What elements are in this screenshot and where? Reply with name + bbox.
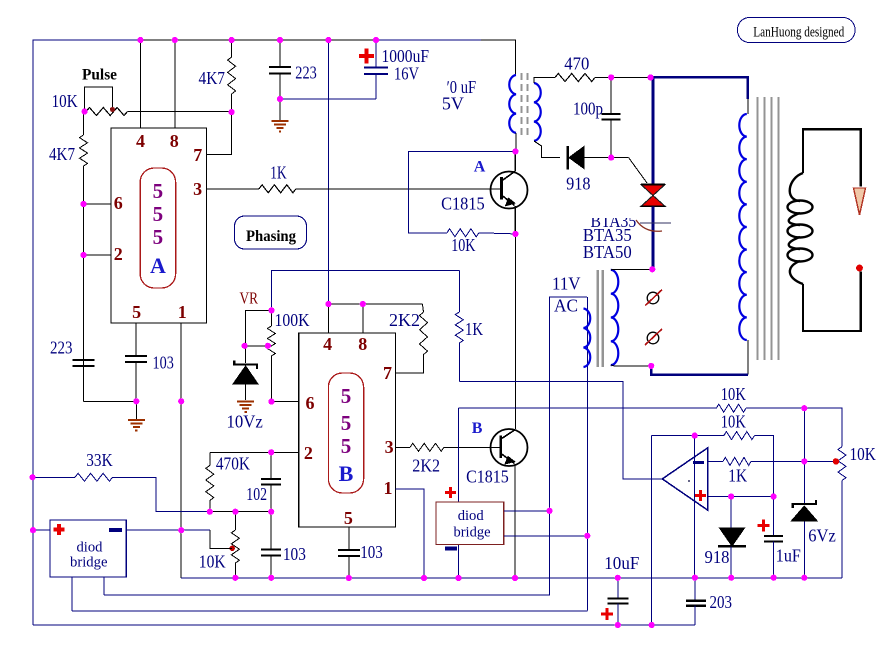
main transformer secondary winding [747,99,749,114]
11V transformer primary winding [584,309,591,368]
op IC U1 555 A box [111,128,207,323]
wire VCC to 1K vertical [272,271,460,311]
pulse transformer T1 primary [509,75,516,133]
pulse transformer T1 secondary [534,83,541,141]
wire T1 primary to A collector [515,133,517,151]
svg-text:diod: diod [77,540,103,556]
box around Q1 [408,151,515,232]
plus 10uF [601,608,613,620]
resistor 470K [209,452,211,465]
junction node (267.9,345.8) [265,343,271,349]
svg-text:103: 103 [360,542,383,562]
wire pin2 B + 470K top [210,451,299,453]
capacitor 1uF [773,497,775,537]
wire rail 2 [104,594,550,596]
wire zener column [803,408,805,503]
junction node (328.4,40) [325,37,331,43]
svg-text:103: 103 [283,544,306,564]
svg-text:10K: 10K [199,551,226,571]
trimmer 10K [234,512,236,530]
capacitor 103 col [270,512,272,550]
capacitor 223 left [73,360,95,366]
svg-text:10Vz: 10Vz [227,412,263,432]
plus 1uF [758,520,770,532]
junction node (271.2,452.3) [268,449,274,455]
wire A emitter down to B collector [514,234,516,429]
resistor 33K [33,476,75,478]
ground A [128,420,145,431]
bridge2 AC stubs [504,510,550,512]
opamp plus [695,490,706,501]
capacitor 10uF [617,578,619,599]
plus bridge1 [54,524,65,535]
junction node (362.8,304) [360,301,366,307]
resistor 4K7 left [83,112,85,136]
svg-text:C1815: C1815 [466,467,509,487]
junction node (515.4,233.9) [512,231,518,237]
junction node (424,578) [421,575,427,581]
junction node (33,530.2) [30,527,36,533]
svg-text:918: 918 [705,547,730,567]
svg-text:1: 1 [178,302,187,322]
resistor 4K7 right (pin7 pullup) [231,40,233,57]
wire pin4 A supply [139,40,141,128]
svg-text:203: 203 [710,592,733,612]
junction node (280,99) [277,96,283,102]
svg-text:diod: diod [458,508,484,524]
load box [803,129,861,186]
wire 11V sec bottom [611,365,651,366]
junction node (209.8,511.7) [207,509,213,515]
capacitor 203 [694,578,696,601]
wire ground stem [279,99,281,120]
svg-text:C1815: C1815 [441,194,485,214]
wire feedback down [651,436,653,625]
wire pin8 A supply [174,40,176,128]
red terminal dot [856,265,863,272]
junction node (611.2,77.4) [608,74,614,80]
wire pin5 B [348,527,350,550]
box Phasing [235,216,307,249]
wire T1 sec bottom [534,141,560,158]
svg-text:5: 5 [341,434,352,458]
wire bridge1 minus [126,529,210,531]
wire supply to pins 4,8 B [328,303,422,305]
resistor 1K vertical [458,271,460,312]
svg-text:AC: AC [554,296,578,316]
junction node (84.6,111.5) [82,108,88,114]
capacitor 103 B [338,550,360,556]
terminal circle 1 [647,292,659,304]
junction node (651.2,365.9) [648,363,654,369]
wire bridge2 + column [549,511,551,596]
capacitor 102 [270,452,272,479]
diod bridge 2 box [436,502,504,544]
capacitor 223 top [279,40,281,67]
opamp speck [688,480,690,482]
wire pin6 stub [84,203,112,205]
spark arrow [854,188,866,215]
junction node (32.5,477.25) [29,474,35,480]
inductor load coil [790,173,803,201]
junction node (651.7,625) [649,622,655,628]
ground zener [237,402,254,413]
junction node (181.2,401.3) [178,398,184,404]
svg-text:103: 103 [153,353,174,373]
terminal circle 2 [647,332,659,344]
svg-text:bridge: bridge [70,555,108,571]
svg-text:5V: 5V [442,94,464,114]
junction node (271.5,310.3) [268,307,274,313]
junction node (280,40) [277,37,283,43]
wire 555B supply vertical [327,40,329,304]
wire inverting node vertical [694,436,696,578]
svg-text:B: B [339,461,354,486]
svg-text:102: 102 [246,484,267,504]
transistor Q1 C1815 A [491,172,528,209]
svg-text:100K: 100K [275,310,310,330]
wire 470K bottom node [210,511,271,513]
svg-text:BTA50: BTA50 [583,242,632,262]
wire pot to 4K7 [128,111,232,113]
wire pin1 A down [180,323,182,578]
wiper tap [246,310,272,363]
triac gate arc mark [640,222,671,224]
svg-text:4K7: 4K7 [49,144,75,164]
junction node (348.8,578) [346,575,352,581]
wire bridge2 - column [586,536,588,611]
main transformer core [756,97,758,360]
svg-text:4K7: 4K7 [199,68,226,88]
junction node (271.2,577.8) [268,575,274,581]
svg-text:3: 3 [385,437,394,457]
capacitor 100p [610,77,612,114]
svg-text:8: 8 [358,334,367,354]
svg-text:4: 4 [136,131,145,151]
resistor 10K base A [447,229,479,237]
junction node (694.9,577.7) [692,575,698,581]
junction node (271.4,401.6) [268,399,274,405]
wire T1 sec top [534,78,548,84]
capacitor 103 A [125,356,147,362]
minus bridge2 [445,547,457,551]
11V transformer secondary winding [611,270,619,365]
ground top [272,121,289,132]
junction node (617.8,577.8) [615,575,621,581]
svg-text:10uF: 10uF [604,553,639,573]
svg-text:4: 4 [323,334,332,354]
svg-text:1K: 1K [465,319,483,339]
wire 11V sec top [611,268,653,271]
opamp minus [693,461,704,464]
svg-text:1: 1 [384,478,393,498]
junction node (235.4,577.8) [232,575,238,581]
svg-text:Pulse: Pulse [82,67,117,84]
junction node (587.3,535.8) [584,533,590,539]
svg-text:5: 5 [341,411,352,435]
pulse transformer T1 core [521,73,523,137]
capacitor 1000uF 16V [375,40,377,67]
wire 1000uF to ground node [280,98,376,100]
svg-text:5: 5 [132,302,141,322]
junction node (617.8,625) [615,622,621,628]
junction node (804.3,577.7) [801,575,807,581]
wire plus supply row [459,407,717,409]
resistor 1K pin3 [207,188,260,190]
svg-text:A: A [150,253,166,278]
wire rail 3 [72,610,588,612]
outer border left+top [140,39,376,41]
junction node (804.3,408.2) [801,405,807,411]
resistor 470 [548,77,555,79]
svg-text:470: 470 [564,54,589,74]
resistor 2K2 pin3 [396,446,411,448]
zener diode 6Vz [793,500,816,508]
wire rail ground [181,577,842,579]
triac BTA35/BTA50 [641,185,665,196]
junction node (515.4,151.4) [512,148,518,154]
junction node (731.2,577.7) [728,575,734,581]
svg-text:bridge: bridge [454,525,491,541]
svg-text:7: 7 [193,145,202,165]
wire pin5 A [135,323,137,356]
wire bridge1 plus [33,529,50,531]
svg-text:223: 223 [295,63,317,83]
junction node (231.6,112.1) [229,109,235,115]
junction node (174.8,40) [172,37,178,43]
11V AC label box + wire [550,297,587,511]
op-amp U3 [662,448,708,511]
svg-text:470K: 470K [216,454,250,474]
diod bridge 1 box [50,520,126,577]
junction node (244.6,345.8) [242,343,248,349]
junction node (271.2,511.7) [268,509,274,515]
svg-text:16V: 16V [394,64,419,84]
junction node (328.4,304) [325,301,331,307]
wire pin2 stub [84,254,112,256]
svg-text:1uF: 1uF [776,546,801,566]
svg-text:Phasing: Phasing [246,228,296,245]
junction node (181.2,530.2) [178,527,184,533]
svg-text:5: 5 [153,179,164,203]
svg-text:10K: 10K [721,412,746,432]
svg-text:10K: 10K [850,444,876,464]
wire rail 4 [33,624,695,626]
resistor 10K feedback [652,435,724,437]
trimmer wiper wire [210,530,232,548]
op IC U2 555 B box [299,333,396,527]
transistor Q2 C1815 B [491,429,528,466]
svg-text:2: 2 [304,443,313,463]
wire opamp output loop [459,381,662,479]
junction node (231.6,40) [229,37,235,43]
junction node (140.4,40) [137,37,143,43]
svg-text:6: 6 [114,193,123,213]
junction node (83.5,204) [80,201,86,207]
svg-text:11V: 11V [552,274,581,294]
11V transformer core [597,270,599,367]
svg-text:100p: 100p [573,99,603,119]
svg-text:1K: 1K [728,465,747,485]
junction node (549.5,510.8) [546,508,552,514]
box LanHuong designed [738,18,856,43]
svg-text:6: 6 [306,393,315,413]
svg-text:7: 7 [383,363,392,383]
plus bridge2 [445,487,456,498]
555A inner rounded rect [140,168,175,288]
pot wiper arm [85,87,113,112]
junction node (773.6,496.5) [771,493,777,499]
svg-text:10K: 10K [52,91,78,111]
junction node (458.5,578) [455,575,461,581]
svg-text:3: 3 [193,179,202,199]
wiper contact dot [110,107,115,112]
wire output net corner [458,408,460,502]
svg-text:B: B [472,420,483,437]
svg-text:2K2: 2K2 [389,310,420,330]
zener diode 10Vz [234,361,257,370]
potentiometer 100K [270,310,272,326]
thick wire transformer bottom [651,366,748,375]
svg-text:33K: 33K [86,450,112,470]
junction node (773.6,577.7) [771,575,777,581]
wire to triac gate [611,157,628,159]
wire pin7 [207,112,232,155]
wire top rail navy right portion [376,39,481,41]
svg-text:10K: 10K [451,235,475,255]
junction node (136.3,401.3) [133,398,139,404]
wire pin1 B [396,489,425,578]
junction node (650.6,77.4) [648,74,654,80]
svg-text:2K2: 2K2 [412,456,440,476]
svg-text:5: 5 [153,225,164,249]
potentiometer 10K Pulse [86,108,128,116]
svg-text:2: 2 [114,244,123,264]
svg-text:LanHuong designed: LanHuong designed [753,25,844,41]
555B inner rounded rect [328,373,363,493]
svg-text:8: 8 [170,131,179,151]
svg-text:VR: VR [240,289,259,308]
junction node (731.2,496.5) [728,493,734,499]
diode 918 top [566,146,568,170]
junction node (515,578) [512,575,518,581]
potentiometer 10K right [838,447,846,481]
junction node (376,40) [373,37,379,43]
emitter arrow B [505,457,515,465]
resistor 10K top [716,404,746,412]
pot wiper red dot [833,458,839,464]
junction node (694.7,435.6) [692,433,698,439]
svg-text:A: A [474,158,486,175]
svg-text:223: 223 [50,338,73,358]
junction node (83.5,255) [80,252,86,258]
junction node (804.3,461.4) [801,458,807,464]
wire pin6 B [271,401,298,403]
svg-text:5: 5 [344,508,353,528]
junction node (235.4,511.7) [232,509,238,515]
svg-text:10K: 10K [721,384,746,404]
trimmer wiper dot [230,546,235,551]
minus bridge1 [109,528,122,532]
plus 1000uF [359,49,374,64]
svg-text:6Vz: 6Vz [808,526,836,546]
thick wire triac bottom [652,206,655,269]
thick wire triac anode [651,77,748,99]
svg-text:5: 5 [153,202,164,226]
bridge1 bottom stubs [71,577,73,611]
svg-text:918: 918 [566,173,590,193]
diode 918 bottom [730,497,732,529]
svg-text:1K: 1K [270,163,286,183]
junction node (652.3,269.3) [649,266,655,272]
resistor 2K2 vertical [422,304,423,312]
emitter arrow A [506,198,515,206]
resistor 1K opamp [708,460,723,462]
wire noninverting row [708,496,774,498]
svg-text:5: 5 [341,384,352,408]
junction node (611.2,157.6) [608,155,614,161]
